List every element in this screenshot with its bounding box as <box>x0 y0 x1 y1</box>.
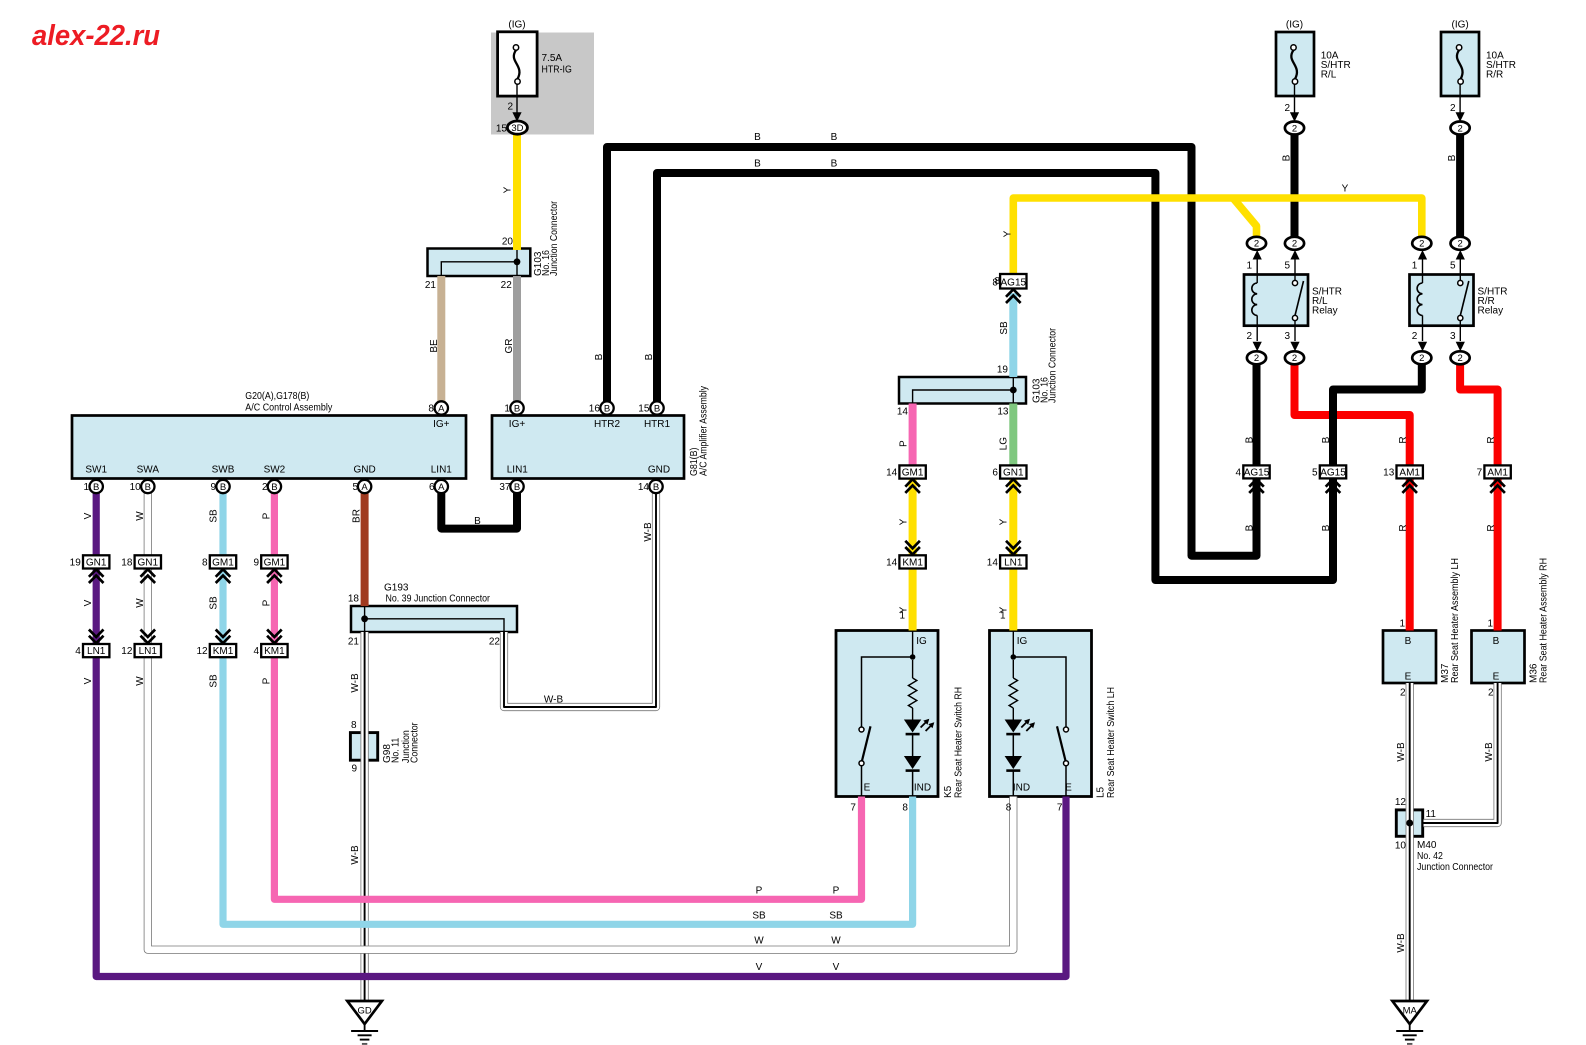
svg-text:1: 1 <box>1246 261 1252 272</box>
svg-text:9: 9 <box>351 764 357 775</box>
rear seat heater assembly M36 box <box>1472 631 1525 684</box>
svg-text:E: E <box>1493 672 1500 683</box>
connector 12 KM1 <box>210 644 236 657</box>
svg-text:22: 22 <box>489 637 501 648</box>
svg-text:Junction Connector: Junction Connector <box>1417 862 1494 873</box>
chevrons <box>89 569 104 577</box>
connector 8 AG15 <box>1000 274 1026 289</box>
svg-text:10: 10 <box>130 482 142 493</box>
svg-text:8: 8 <box>351 720 357 731</box>
svg-text:2: 2 <box>1292 353 1297 364</box>
svg-text:1: 1 <box>504 404 510 415</box>
svg-text:KM1: KM1 <box>264 646 285 657</box>
rear seat heater switch K5 box <box>836 631 938 797</box>
svg-text:22: 22 <box>501 280 513 291</box>
svg-text:P: P <box>262 512 273 519</box>
svg-text:AG15: AG15 <box>1244 467 1270 478</box>
svg-text:9: 9 <box>253 558 259 569</box>
svg-text:Y: Y <box>503 186 514 193</box>
connector 12 LN1 <box>135 644 161 657</box>
svg-text:2: 2 <box>1400 688 1406 699</box>
svg-text:2: 2 <box>1292 123 1297 134</box>
svg-text:SWA: SWA <box>137 465 160 476</box>
svg-text:Rear Seat Heater Assembly LH: Rear Seat Heater Assembly LH <box>1450 558 1461 683</box>
svg-text:W: W <box>135 598 146 608</box>
connector 19 GN1 <box>83 555 109 568</box>
svg-text:GN1: GN1 <box>138 558 159 569</box>
A/C Control Assembly G20(A),G178(B) box <box>72 416 466 479</box>
relay R/L coil and switch <box>1256 275 1258 284</box>
svg-text:AG15: AG15 <box>1320 467 1346 478</box>
fuse 10A S/HTR R/R symbol <box>1457 50 1463 79</box>
connector 8 GM1 <box>210 555 236 568</box>
svg-text:GN1: GN1 <box>86 558 107 569</box>
wire W-B from amplifier GND 14(B) to G193 pin 22 <box>504 493 656 707</box>
svg-text:15: 15 <box>496 123 508 134</box>
svg-text:No. 42: No. 42 <box>1417 851 1443 862</box>
svg-text:E: E <box>1065 783 1072 794</box>
connector 14 LN1 <box>1000 555 1026 568</box>
K5 indicator LEDs <box>904 720 921 733</box>
svg-text:A: A <box>361 482 368 493</box>
svg-text:B: B <box>474 516 481 527</box>
svg-text:HTR-IG: HTR-IG <box>542 65 572 76</box>
wire B from fuse S/HTR R/R pin 2 to relay R/R pin 5 <box>1456 134 1464 238</box>
svg-text:14: 14 <box>886 468 898 479</box>
svg-text:B: B <box>754 132 761 143</box>
connector 6 GN1 <box>1000 465 1026 478</box>
wire Y from fuse HTR-IG 3D to junction G103 pin 20 <box>513 128 521 250</box>
svg-text:2: 2 <box>507 102 513 113</box>
wire GR from G103 pin 22 to amplifier IG+ 1(B) <box>513 276 521 402</box>
svg-text:8: 8 <box>428 404 434 415</box>
svg-text:21: 21 <box>348 637 360 648</box>
svg-text:15: 15 <box>638 404 650 415</box>
svg-text:2: 2 <box>1488 688 1494 699</box>
svg-text:8: 8 <box>994 276 1000 287</box>
svg-text:GM1: GM1 <box>902 468 924 479</box>
svg-text:alex-22.ru: alex-22.ru <box>32 20 160 52</box>
svg-text:Y: Y <box>1342 184 1349 195</box>
svg-text:12: 12 <box>1395 797 1407 808</box>
svg-text:W-B: W-B <box>350 673 361 693</box>
svg-text:SB: SB <box>752 911 766 922</box>
fuse HTR-IG box <box>498 32 537 96</box>
svg-text:W-B: W-B <box>1396 933 1407 953</box>
svg-text:IG: IG <box>916 636 927 647</box>
wire Y from 14 KM1 to K5 pin 1 <box>909 568 917 630</box>
svg-text:No. 39 Junction Connector: No. 39 Junction Connector <box>386 594 491 605</box>
svg-text:K5: K5 <box>943 785 954 798</box>
connector 18 GN1 <box>135 555 161 568</box>
svg-text:G193: G193 <box>384 583 409 594</box>
junction connector G103 No.16 (right) box <box>899 377 1026 404</box>
svg-text:R: R <box>1486 524 1497 531</box>
connector 4 AG15 <box>1243 465 1269 478</box>
L5 internal circuit: resistor, LEDs, switch <box>1012 631 1014 658</box>
connector 7 AM1 <box>1484 465 1510 478</box>
svg-text:7: 7 <box>1057 803 1063 814</box>
wire B from fuse S/HTR R/L pin 2 to relay R/L pin 5 <box>1291 134 1299 238</box>
svg-text:W-B: W-B <box>544 695 564 706</box>
connector 9 GM1 <box>261 555 287 568</box>
svg-text:3D: 3D <box>511 123 523 134</box>
svg-text:GM1: GM1 <box>212 558 234 569</box>
svg-text:12: 12 <box>196 646 208 657</box>
svg-text:Junction Connector: Junction Connector <box>1048 327 1059 403</box>
wire W-B from M37 pin 2 through M40 to ground MA <box>1406 683 1414 1001</box>
svg-text:LN1: LN1 <box>87 646 106 657</box>
wire Y from 6 GN1 to 14 LN1 <box>1009 478 1017 555</box>
svg-text:B: B <box>271 482 277 493</box>
svg-text:21: 21 <box>425 280 437 291</box>
svg-text:W-B: W-B <box>1484 742 1495 762</box>
svg-text:GND: GND <box>353 465 375 476</box>
svg-text:HTR2: HTR2 <box>594 419 621 430</box>
svg-text:13: 13 <box>997 407 1009 418</box>
fuse pin ovals (2) <box>1285 122 1304 135</box>
wire SB from connector 8 AG15 to G103 pin 19 <box>1009 293 1017 377</box>
svg-text:B: B <box>653 482 659 493</box>
wire R from relay R/R pin 3 to connector 7 AM1 <box>1460 362 1498 466</box>
wire B from amplifier HTR2 16(B) to connector 4 AG15 (relay R/L pin 2) <box>607 147 1257 556</box>
svg-text:P: P <box>756 886 763 897</box>
svg-text:A: A <box>438 482 445 493</box>
svg-text:3: 3 <box>1450 331 1456 342</box>
svg-text:LIN1: LIN1 <box>507 465 529 476</box>
svg-text:P: P <box>833 886 840 897</box>
wire B from amplifier HTR1 15(B) to connector 5 AG15 (relay R/R pin 2) <box>657 173 1333 580</box>
svg-text:20: 20 <box>502 237 514 248</box>
svg-text:Relay: Relay <box>1312 306 1338 317</box>
svg-text:(IG): (IG) <box>1286 20 1303 31</box>
svg-text:2: 2 <box>1254 353 1259 364</box>
svg-text:13: 13 <box>1383 467 1395 478</box>
svg-text:B: B <box>1245 524 1256 531</box>
A/C Amplifier Assembly G81(B) box <box>492 416 684 479</box>
svg-text:B: B <box>1405 636 1412 647</box>
wire W-B from G193 pin 21 through G98 to ground GD <box>361 632 369 1001</box>
rear seat heater assembly M37 box <box>1383 631 1436 684</box>
A/C control assembly pins <box>435 401 448 414</box>
wire R from 7 AM1 to M36 pin 1 <box>1494 478 1502 630</box>
svg-text:14: 14 <box>886 558 898 569</box>
svg-text:SW1: SW1 <box>85 465 107 476</box>
connector 5 AG15 <box>1320 465 1346 478</box>
wire V from SW1 1(B) through GN1/LN1 to L5 pin 7 <box>96 493 1066 977</box>
svg-text:SB: SB <box>829 911 843 922</box>
svg-text:R: R <box>1398 524 1409 531</box>
svg-text:8: 8 <box>1006 803 1012 814</box>
svg-text:5: 5 <box>1450 261 1456 272</box>
svg-text:GM1: GM1 <box>264 558 286 569</box>
svg-text:B: B <box>145 482 151 493</box>
svg-text:Rear Seat Heater Assembly RH: Rear Seat Heater Assembly RH <box>1539 558 1550 683</box>
svg-text:19: 19 <box>997 365 1009 376</box>
svg-text:V: V <box>756 962 763 973</box>
svg-text:LG: LG <box>999 437 1010 451</box>
svg-text:B: B <box>754 159 761 170</box>
svg-text:B: B <box>604 404 610 415</box>
svg-text:37: 37 <box>499 482 511 493</box>
svg-text:14: 14 <box>897 407 909 418</box>
wire R from 13 AM1 to M37 pin 1 <box>1406 478 1414 630</box>
svg-text:R: R <box>1398 436 1409 443</box>
svg-text:W: W <box>754 936 764 947</box>
svg-text:Rear Seat Heater Switch RH: Rear Seat Heater Switch RH <box>954 687 965 798</box>
svg-text:A/C Amplifier Assembly: A/C Amplifier Assembly <box>698 386 709 476</box>
svg-text:E: E <box>1405 672 1412 683</box>
wire B between A/C control LIN1 6(A) and amplifier LIN1 37(B) <box>441 493 517 529</box>
relay pin ovals <box>1247 237 1266 250</box>
wire LG from G103 pin 13 to connector 6 GN1 <box>1009 404 1017 467</box>
svg-text:B: B <box>514 404 520 415</box>
svg-text:14: 14 <box>638 482 650 493</box>
svg-text:4: 4 <box>75 646 81 657</box>
svg-text:2: 2 <box>1254 239 1259 250</box>
svg-text:IG+: IG+ <box>509 419 526 430</box>
A/C amplifier pins <box>510 401 523 414</box>
svg-text:Connector: Connector <box>410 722 421 763</box>
svg-text:1: 1 <box>1399 619 1405 630</box>
svg-text:B: B <box>654 404 660 415</box>
svg-text:14: 14 <box>987 558 999 569</box>
K5 resistor <box>912 660 914 678</box>
svg-text:E: E <box>864 783 871 794</box>
svg-text:Relay: Relay <box>1478 306 1504 317</box>
svg-text:3: 3 <box>1284 331 1290 342</box>
svg-text:B: B <box>93 482 99 493</box>
svg-text:2: 2 <box>1292 239 1297 250</box>
svg-text:1: 1 <box>1487 619 1493 630</box>
wire BE from G103 pin 21 to A/C control IG+ 8(A) <box>437 276 445 402</box>
svg-text:LN1: LN1 <box>139 646 158 657</box>
svg-text:1: 1 <box>899 611 905 622</box>
svg-text:Rear Seat Heater Switch LH: Rear Seat Heater Switch LH <box>1106 687 1117 798</box>
svg-text:IG: IG <box>1017 636 1028 647</box>
svg-text:Y: Y <box>1003 230 1014 237</box>
wire Y main feed from 8 AG15 to relays R/L and R/R pin 1 <box>1013 198 1422 276</box>
svg-text:B: B <box>644 353 655 360</box>
svg-text:IND: IND <box>1013 783 1030 794</box>
svg-text:11: 11 <box>1426 809 1437 820</box>
svg-text:W-B: W-B <box>350 845 361 865</box>
wire Y from 14 LN1 to L5 pin 1 <box>1009 568 1017 630</box>
svg-text:B: B <box>831 159 838 170</box>
svg-text:2: 2 <box>1419 239 1424 250</box>
svg-text:P: P <box>262 677 273 684</box>
svg-text:B: B <box>220 482 226 493</box>
svg-text:2: 2 <box>1284 103 1290 114</box>
svg-text:1: 1 <box>83 482 89 493</box>
svg-text:B: B <box>1493 636 1500 647</box>
svg-text:AM1: AM1 <box>1487 467 1508 478</box>
junction connector G103 No.16 (left) box <box>428 249 531 277</box>
svg-text:KM1: KM1 <box>902 558 923 569</box>
svg-text:18: 18 <box>348 594 360 605</box>
svg-text:2: 2 <box>1457 353 1462 364</box>
svg-text:2: 2 <box>1246 331 1252 342</box>
svg-text:19: 19 <box>70 558 82 569</box>
wire P from G103 pin 14 to connector 14 GM1 <box>909 404 917 467</box>
svg-text:A: A <box>438 404 445 415</box>
connector 14 KM1 <box>899 555 925 568</box>
svg-text:SB: SB <box>209 509 220 523</box>
svg-text:AG15: AG15 <box>1001 278 1027 289</box>
svg-text:B: B <box>1321 524 1332 531</box>
svg-text:BE: BE <box>429 339 440 353</box>
svg-text:R/R: R/R <box>1486 70 1503 81</box>
svg-text:W: W <box>135 676 146 686</box>
wire Y from 14 GM1 to 14 KM1 <box>909 478 917 555</box>
svg-text:B: B <box>1282 154 1293 161</box>
svg-text:SB: SB <box>209 596 220 610</box>
svg-text:G20(A),G178(B): G20(A),G178(B) <box>245 391 309 402</box>
svg-text:No. 11: No. 11 <box>391 737 402 763</box>
L5 indicator LEDs <box>1005 720 1022 733</box>
svg-text:2: 2 <box>1412 331 1418 342</box>
svg-text:IND: IND <box>914 783 931 794</box>
svg-text:10: 10 <box>1395 841 1407 852</box>
svg-text:SW2: SW2 <box>264 465 286 476</box>
svg-text:4: 4 <box>253 646 259 657</box>
fuse HTR-IG gray background <box>491 33 594 135</box>
connector 4 LN1 <box>83 644 109 657</box>
svg-text:(IG): (IG) <box>1451 20 1468 31</box>
L5 resistor <box>1012 660 1014 678</box>
wire P from SW2 2(B) through GM1/KM1 to K5 pin 7 <box>274 493 861 899</box>
svg-text:7: 7 <box>1477 467 1483 478</box>
svg-text:6: 6 <box>992 468 998 479</box>
svg-text:2: 2 <box>1457 239 1462 250</box>
svg-text:KM1: KM1 <box>213 646 234 657</box>
wire SB from SWB 9(B) through GM1/KM1 to K5 pin 8 <box>223 493 913 924</box>
svg-text:P: P <box>898 440 909 447</box>
svg-text:W-B: W-B <box>643 522 654 542</box>
fuse S/HTR R/R box <box>1441 32 1479 96</box>
svg-text:SB: SB <box>999 321 1010 335</box>
svg-text:5: 5 <box>352 482 358 493</box>
svg-text:Y: Y <box>999 518 1010 525</box>
svg-text:2: 2 <box>1450 103 1456 114</box>
svg-text:B: B <box>831 132 838 143</box>
svg-text:B: B <box>514 482 520 493</box>
svg-text:7.5A: 7.5A <box>542 53 563 64</box>
svg-text:GD: GD <box>357 1006 371 1017</box>
svg-text:2: 2 <box>1457 123 1462 134</box>
svg-text:W-B: W-B <box>1396 742 1407 762</box>
svg-text:16: 16 <box>589 404 601 415</box>
relay R/R coil and switch <box>1422 275 1424 284</box>
svg-text:1: 1 <box>1000 611 1006 622</box>
svg-text:18: 18 <box>121 558 133 569</box>
connector 14 GM1 <box>899 465 925 478</box>
svg-text:9: 9 <box>210 482 216 493</box>
junction connector M40 No.42 box <box>1396 810 1422 836</box>
svg-text:M40: M40 <box>1417 840 1437 851</box>
svg-text:P: P <box>262 599 273 606</box>
svg-text:B: B <box>594 353 605 360</box>
svg-text:B: B <box>1245 436 1256 443</box>
svg-text:GND: GND <box>648 465 670 476</box>
oval 15 3D <box>507 121 527 134</box>
svg-text:W: W <box>135 511 146 521</box>
svg-text:12: 12 <box>121 646 133 657</box>
svg-text:A/C Control Assembly: A/C Control Assembly <box>245 403 332 414</box>
junction connector G193 No.39 box <box>351 606 517 632</box>
svg-text:8: 8 <box>902 803 908 814</box>
svg-text:5: 5 <box>1284 261 1290 272</box>
K5 internal circuit: resistor, LEDs, switch <box>912 631 914 658</box>
svg-text:SWB: SWB <box>212 465 235 476</box>
relay S/HTR R/R box <box>1410 275 1474 326</box>
svg-text:6: 6 <box>429 482 435 493</box>
junction connector G98 No.11 box <box>350 733 377 761</box>
svg-text:W: W <box>831 936 841 947</box>
svg-text:B: B <box>1447 154 1458 161</box>
connector 4 KM1 <box>261 644 287 657</box>
relay S/HTR R/L box <box>1244 275 1308 326</box>
ground GD <box>347 1001 382 1024</box>
svg-text:AM1: AM1 <box>1399 467 1420 478</box>
svg-text:(IG): (IG) <box>508 20 525 31</box>
svg-text:HTR1: HTR1 <box>644 419 671 430</box>
svg-text:R/L: R/L <box>1321 70 1337 81</box>
svg-text:4: 4 <box>1236 467 1242 478</box>
fuse 10A S/HTR R/L symbol <box>1291 50 1297 79</box>
svg-text:GN1: GN1 <box>1003 468 1024 479</box>
wire W-B from M36 pin 2 to M40 pin 11 <box>1424 683 1498 823</box>
svg-text:V: V <box>83 677 94 684</box>
svg-text:GR: GR <box>504 339 515 354</box>
svg-text:2: 2 <box>262 482 268 493</box>
svg-text:V: V <box>833 962 840 973</box>
svg-text:V: V <box>83 599 94 606</box>
wire W from SWA 10(B) through GN1/LN1 to L5 pin 8 <box>148 493 1014 950</box>
svg-text:7: 7 <box>850 803 856 814</box>
fuse 7.5A HTR-IG symbol <box>514 50 520 79</box>
wire BR from A/C control GND 5(A) to G193 pin 18 <box>361 493 369 606</box>
svg-text:LIN1: LIN1 <box>431 465 453 476</box>
ground MA <box>1392 1001 1427 1024</box>
svg-text:IG+: IG+ <box>433 419 450 430</box>
svg-text:2: 2 <box>1419 353 1424 364</box>
fuse S/HTR R/L box <box>1276 32 1314 96</box>
wire R from relay R/L pin 3 to connector 13 AM1 <box>1295 362 1410 466</box>
svg-text:8: 8 <box>202 558 208 569</box>
svg-text:Junction Connector: Junction Connector <box>549 200 560 276</box>
svg-text:V: V <box>83 512 94 519</box>
svg-text:SB: SB <box>209 674 220 688</box>
rear seat heater switch L5 box <box>990 631 1092 797</box>
svg-text:BR: BR <box>352 509 363 523</box>
svg-text:B: B <box>1321 436 1332 443</box>
svg-text:5: 5 <box>1312 467 1318 478</box>
connector 13 AM1 <box>1397 465 1423 478</box>
svg-text:LN1: LN1 <box>1004 558 1023 569</box>
svg-text:L5: L5 <box>1096 786 1107 798</box>
svg-text:R: R <box>1486 436 1497 443</box>
svg-text:1: 1 <box>1412 261 1418 272</box>
svg-text:Y: Y <box>898 518 909 525</box>
svg-text:MA: MA <box>1403 1006 1418 1017</box>
